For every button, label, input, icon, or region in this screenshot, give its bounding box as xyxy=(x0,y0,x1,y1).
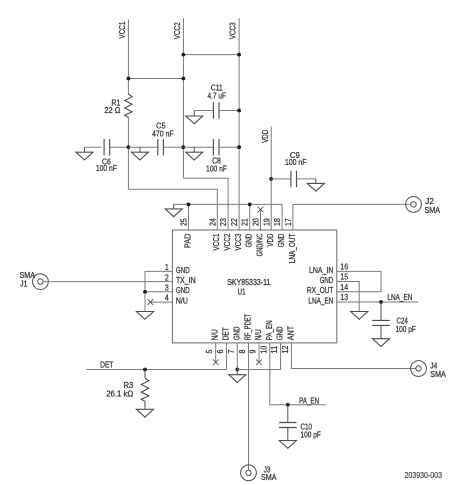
net label PA_EN xyxy=(299,395,319,405)
svg-text:18: 18 xyxy=(272,218,282,226)
node junction VCC3/caps row xyxy=(237,145,241,149)
svg-text:GND/NC: GND/NC xyxy=(254,234,264,257)
wire VCC2 rail route to U1 pin 23 xyxy=(183,178,228,230)
ground for C11 xyxy=(186,111,203,124)
svg-text:SMA: SMA xyxy=(261,472,277,482)
ground between VCC2 and C8 xyxy=(186,147,203,160)
svg-text:22 Ω: 22 Ω xyxy=(104,105,120,115)
svg-text:VDD: VDD xyxy=(260,130,270,143)
connector J2 SMA xyxy=(406,196,441,215)
capacitor C5 470 nF xyxy=(152,120,174,155)
svg-text:203930-003: 203930-003 xyxy=(405,470,443,480)
svg-text:13: 13 xyxy=(340,292,348,302)
node junction VCC2/caps row xyxy=(182,145,186,149)
svg-text:LNA_EN: LNA_EN xyxy=(308,295,333,305)
node junction VDD/C9 xyxy=(269,177,273,181)
U1 pin 9 number xyxy=(248,349,258,353)
svg-text:LNA_IN: LNA_IN xyxy=(309,265,333,275)
svg-text:470 nF: 470 nF xyxy=(152,129,174,139)
U1 pin 7 name GND xyxy=(231,327,241,341)
wire C5 to VCC2 xyxy=(163,146,183,148)
svg-text:100 pF: 100 pF xyxy=(396,324,416,334)
U1 pin 16 number xyxy=(340,262,348,272)
wire J1 to U1 pin 2 xyxy=(43,281,172,283)
wire U1 pin 16 to pin 14 loop xyxy=(337,271,381,291)
node junction VCC1/caps row xyxy=(126,145,130,149)
capacitor C6 100 nF xyxy=(96,139,117,173)
svg-text:GND: GND xyxy=(244,234,254,248)
power net VCC3 rail xyxy=(228,18,240,230)
wire U1 pin 17 to J2 xyxy=(293,204,411,230)
node junction VCC3/jumper xyxy=(237,53,241,57)
svg-text:4: 4 xyxy=(165,293,169,303)
svg-text:VCC3: VCC3 xyxy=(233,233,243,250)
svg-text:U1: U1 xyxy=(238,287,246,297)
svg-text:VDD: VDD xyxy=(265,234,275,247)
svg-text:PA_EN: PA_EN xyxy=(264,320,274,340)
svg-text:8: 8 xyxy=(237,349,247,353)
wire VCC2 to C8 xyxy=(183,146,213,148)
svg-text:11: 11 xyxy=(269,345,279,353)
svg-text:3: 3 xyxy=(165,282,169,292)
svg-text:VCC1: VCC1 xyxy=(117,21,127,38)
U1 pin 10 number xyxy=(258,345,268,353)
svg-text:SKY85333-11: SKY85333-11 xyxy=(227,277,270,287)
svg-text:20: 20 xyxy=(251,218,261,226)
node junction VCC2/jumper xyxy=(182,53,186,57)
U1 pin 17 number xyxy=(283,218,293,226)
U1 pin 13 name LNA_EN xyxy=(308,295,333,305)
node junction LNA_EN/C24 xyxy=(379,300,383,304)
U1 pin 5 name N/U xyxy=(210,329,220,340)
node junction pin7/ground xyxy=(235,368,239,372)
svg-text:SMA: SMA xyxy=(430,369,446,379)
wire U1 pin 1 to ground xyxy=(145,271,172,311)
node junction VCC1/jumper xyxy=(126,77,130,81)
svg-text:7: 7 xyxy=(226,349,236,353)
svg-text:DET: DET xyxy=(100,360,113,370)
resistor R3 26.1 kOhm xyxy=(106,370,149,410)
wire U1 pin 3 stub xyxy=(145,291,172,293)
no-connect X at U1 pin 5 xyxy=(213,343,219,365)
no-connect X at U1 pin 20 xyxy=(258,207,264,230)
U1 pin 21 name GND xyxy=(244,234,254,248)
svg-text:9: 9 xyxy=(248,349,258,353)
wire VCC1 rail route to U1 pin 24 xyxy=(128,189,217,230)
svg-text:24: 24 xyxy=(207,218,217,226)
node junction VCC2/jumper lower xyxy=(182,77,186,81)
U1 pin 10 name PA_EN xyxy=(264,320,274,340)
wire U1 pin 25 stub xyxy=(188,204,190,230)
wire U1 pin 13 LNA_EN net xyxy=(337,301,418,303)
U1 pin 6 number xyxy=(215,349,225,353)
wire C6 to VCC1 xyxy=(110,146,129,148)
svg-text:GND: GND xyxy=(275,327,285,341)
svg-text:100 pF: 100 pF xyxy=(301,430,321,440)
ground under U1 pin 7 xyxy=(229,370,246,383)
U1 pin 1 number xyxy=(165,262,169,272)
svg-text:N/U: N/U xyxy=(210,329,220,340)
no-connect X at U1 pin 9 xyxy=(256,343,262,365)
wire U1 pin 8 to J3 xyxy=(248,343,250,470)
svg-text:RF_PDET: RF_PDET xyxy=(243,314,253,341)
wire VCC2-VCC3 jumper xyxy=(183,54,239,56)
svg-text:100 nF: 100 nF xyxy=(96,163,117,173)
wire U1 pin 10 PA_EN net xyxy=(270,343,326,405)
svg-text:PAD: PAD xyxy=(182,234,192,249)
svg-text:SMA: SMA xyxy=(425,205,441,215)
svg-text:N/U: N/U xyxy=(176,296,188,306)
op-amp U1 SKY85333-11 body xyxy=(172,230,336,343)
ground for U1 pin 15 xyxy=(351,312,368,320)
svg-text:VCC3: VCC3 xyxy=(228,22,238,39)
svg-text:ANT: ANT xyxy=(285,326,295,341)
capacitor C10 100 pF xyxy=(279,405,321,441)
svg-text:N/U: N/U xyxy=(253,329,263,340)
ground for U1 pins 25/21/18 xyxy=(165,204,182,216)
svg-text:GND: GND xyxy=(176,285,190,295)
wire C8 to VCC3 xyxy=(219,146,239,148)
wire gnd to C6 xyxy=(85,146,102,148)
power net VCC1 rail xyxy=(117,19,128,189)
ground for R3 xyxy=(137,409,154,417)
svg-text:19: 19 xyxy=(261,218,271,226)
capacitor C9 100 nF xyxy=(285,150,307,187)
node junction C11/VCC3 xyxy=(237,109,241,113)
svg-text:6: 6 xyxy=(215,349,225,353)
no-connect X at U1 pin 4 xyxy=(147,299,172,305)
svg-text:16: 16 xyxy=(340,262,348,272)
ground right of C9 xyxy=(307,179,324,191)
ground for C24 xyxy=(373,339,390,347)
U1 pin 6 name DET xyxy=(221,327,231,340)
svg-text:GND: GND xyxy=(320,275,334,285)
U1 pin 8 number xyxy=(237,349,247,353)
wire DET net to U1 pin 6 xyxy=(87,343,227,370)
U1 pin 4 name N/U xyxy=(176,296,188,306)
U1 pin 15 name GND xyxy=(320,275,334,285)
svg-text:LNA_OUT: LNA_OUT xyxy=(287,234,297,264)
svg-text:5: 5 xyxy=(204,349,214,353)
U1 pin 18 name GND xyxy=(276,234,286,248)
ground for U1 pins 1/3 xyxy=(137,312,154,320)
svg-text:25: 25 xyxy=(179,218,189,226)
U1 pin 25 number xyxy=(179,218,189,226)
U1 pin 23 name VCC2 xyxy=(222,233,232,250)
U1 pin 1 name GND xyxy=(176,265,190,275)
resistor R1 22 Ohm xyxy=(104,94,132,118)
connector J3 SMA xyxy=(241,464,277,482)
U1 pin 12 name ANT xyxy=(285,326,295,341)
node junction DET/R3 xyxy=(143,368,147,372)
U1 pin 19 name VDD xyxy=(265,234,275,247)
capacitor C24 100 pF xyxy=(372,302,416,339)
svg-text:2: 2 xyxy=(165,272,169,282)
svg-text:LNA_EN: LNA_EN xyxy=(387,292,412,302)
U1 pin 9 name N/U xyxy=(253,329,263,340)
U1 pin 11 name GND xyxy=(275,327,285,341)
wire VDD to C9 xyxy=(271,178,291,180)
ground left of C6 xyxy=(76,147,93,160)
wire C9 to ground xyxy=(297,178,316,180)
document number 203930-003 xyxy=(405,470,443,480)
svg-text:100 nF: 100 nF xyxy=(285,157,307,167)
connector J4 SMA xyxy=(411,360,446,379)
svg-text:GND: GND xyxy=(176,265,190,275)
node junction pin21/ground bus xyxy=(248,203,252,207)
svg-text:14: 14 xyxy=(340,282,348,292)
svg-text:J1: J1 xyxy=(20,278,27,288)
ground between VCC1 and C5 xyxy=(131,147,148,160)
svg-text:RX_OUT: RX_OUT xyxy=(307,285,334,295)
U1 pin 2 number xyxy=(165,272,169,282)
node junction PA_EN/C10 xyxy=(286,403,290,407)
svg-text:26.1 kΩ: 26.1 kΩ xyxy=(106,388,133,398)
U1 pin 16 name LNA_IN xyxy=(309,265,333,275)
svg-text:12: 12 xyxy=(280,345,290,353)
U1 pin 5 number xyxy=(204,349,214,353)
power net VDD rail xyxy=(260,127,271,231)
U1 pin 8 name RF_PDET xyxy=(243,314,253,341)
svg-text:22: 22 xyxy=(229,218,239,226)
node junction pin25/ground bus xyxy=(187,203,191,207)
U1 pin 3 name GND xyxy=(176,285,190,295)
wire U1 pin 7 to ground bus xyxy=(236,343,238,370)
svg-text:15: 15 xyxy=(340,272,348,282)
U1 pin 20 number xyxy=(251,218,261,226)
U1 pin 2 name TX_IN xyxy=(176,275,196,285)
power net VCC2 rail xyxy=(172,18,184,178)
connector J1 SMA xyxy=(20,270,49,289)
svg-text:GND: GND xyxy=(276,234,286,248)
svg-text:TX_IN: TX_IN xyxy=(176,275,196,285)
svg-text:21: 21 xyxy=(240,218,250,226)
wire bottom ground bus to pin 11 xyxy=(237,343,280,370)
svg-text:10: 10 xyxy=(258,345,268,353)
svg-text:17: 17 xyxy=(283,218,293,226)
U1 pin 12 number xyxy=(280,345,290,353)
U1 pin 20 name GND/NC xyxy=(254,234,264,257)
wire C11 to VCC3 xyxy=(219,110,239,112)
svg-text:VCC2: VCC2 xyxy=(222,233,232,250)
svg-text:23: 23 xyxy=(218,218,228,226)
net label LNA_EN xyxy=(387,292,412,302)
U1 pin 13 number xyxy=(340,292,348,302)
U1 pin 7 number xyxy=(226,349,236,353)
svg-text:VCC2: VCC2 xyxy=(172,22,182,39)
U1 pin 14 number xyxy=(340,282,348,292)
U1 pin 22 name VCC3 xyxy=(233,233,243,250)
U1 pin 18 number xyxy=(272,218,282,226)
svg-text:PA_EN: PA_EN xyxy=(299,395,319,405)
wire U1 pin 15 to ground xyxy=(337,282,359,312)
wire C11 left xyxy=(194,110,213,112)
U1 pin 24 number xyxy=(207,218,217,226)
net label DET xyxy=(100,360,113,370)
ground for C10 xyxy=(279,441,296,449)
U1 pin 4 number xyxy=(165,293,169,303)
U1 pin 24 name VCC1 xyxy=(211,233,221,250)
U1 pin 17 name LNA_OUT xyxy=(287,234,297,264)
U1 pin 3 number xyxy=(165,282,169,292)
wire top ground bus xyxy=(174,204,282,230)
U1 pin 14 name RX_OUT xyxy=(307,285,334,295)
U1 pin 25 name PAD xyxy=(182,234,192,249)
svg-text:4.7 uF: 4.7 uF xyxy=(208,90,227,100)
wire VCC1-VCC2 jumper xyxy=(128,78,183,80)
capacitor C11 4.7 uF xyxy=(208,82,227,118)
U1 pin 15 number xyxy=(340,272,348,282)
U1 pin 19 number xyxy=(261,218,271,226)
svg-text:GND: GND xyxy=(231,327,241,341)
wire VCC1 to C5 xyxy=(128,146,157,148)
node junction pin3/ground xyxy=(143,290,147,294)
svg-text:DET: DET xyxy=(221,327,231,340)
wire U1 pin 12 to J4 xyxy=(291,343,416,369)
U1 pin 22 number xyxy=(229,218,239,226)
svg-text:1: 1 xyxy=(165,262,169,272)
U1 pin 11 number xyxy=(269,345,279,353)
wire U1 pin 21 stub xyxy=(249,204,251,230)
svg-text:100 nF: 100 nF xyxy=(206,163,227,173)
U1 pin 21 number xyxy=(240,218,250,226)
U1 pin 23 number xyxy=(218,218,228,226)
capacitor C8 100 nF xyxy=(206,139,227,173)
svg-text:VCC1: VCC1 xyxy=(211,233,221,250)
